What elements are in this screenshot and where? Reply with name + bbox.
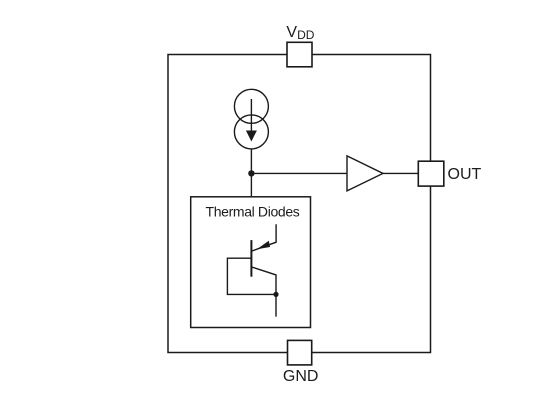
VDD pin square bbox=[287, 42, 312, 67]
chip boundary rectangle bbox=[168, 55, 431, 353]
OUT pin square bbox=[418, 161, 444, 186]
Q1 emitter lead bbox=[252, 224, 276, 251]
Q1 collector lead bbox=[251, 267, 276, 317]
svg-text:Thermal Diodes: Thermal Diodes bbox=[206, 204, 300, 220]
svg-text:OUT: OUT bbox=[448, 166, 482, 183]
transistor Q1 (diode-connected PNP) bbox=[227, 224, 278, 316]
wire: buffer output to OUT pin bbox=[383, 172, 418, 174]
svg-text:VDD: VDD bbox=[286, 24, 314, 42]
wire: current source to node A bbox=[250, 149, 252, 174]
thermal diodes box bbox=[191, 197, 311, 328]
svg-text:GND: GND bbox=[283, 368, 319, 385]
Q1 base bar bbox=[250, 240, 252, 277]
Q1 collector-base junction dot bbox=[273, 292, 278, 297]
node A junction dot bbox=[248, 170, 254, 176]
Q1 base-collector feedback wire bbox=[227, 258, 276, 294]
GND pin square bbox=[288, 340, 312, 365]
wire: node A to buffer input bbox=[251, 172, 347, 174]
Q1 emitter arrowhead bbox=[257, 241, 270, 249]
op-amp buffer U1 bbox=[347, 156, 383, 191]
wire: node A to thermal diodes box bbox=[250, 173, 252, 196]
current source I1 bbox=[234, 89, 268, 149]
